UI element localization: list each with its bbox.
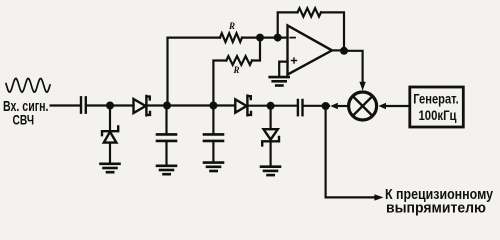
output node dot [340,47,348,55]
zener diode VD4 (cathode down) [262,129,279,145]
svg-text:100кГц: 100кГц [419,108,458,123]
resistor R2 [226,56,252,65]
capacitor C1 (series input) [81,97,86,112]
ground G2 [157,166,176,174]
op-amp plus sign [292,58,297,63]
wire: VD1 to ground [109,143,111,163]
generator box [410,87,464,127]
wire: C4 to node F [304,105,329,107]
wire: node D down capacitor branch [212,106,214,135]
node A (junction dot) [106,102,114,110]
node C (junction of R1 and R2) [256,34,264,42]
capacitor C3 (to ground) [204,134,223,141]
diode VD2 (series zener, pointing right) [134,96,151,115]
wire: plus input to ground [279,62,287,77]
node D (junction dot) [209,102,217,110]
label: Вх. сигн. СВЧ [3,99,49,128]
ground G4 [261,167,280,175]
ground G5 (op-amp) [270,77,289,85]
op-amp U1 [288,25,333,74]
wire: node A down to zener VD1 [109,106,111,131]
output arrow (pointing right) [374,194,383,200]
wire: output to mixer (down) [344,51,363,82]
capacitor C4 (series, before mixer) [298,100,303,115]
feedback resistor [298,8,322,16]
wire: VD2 to node B [147,104,235,106]
input sine-wave symbol [6,78,50,92]
label: Генерат. 100кГц [413,92,459,124]
svg-text:СВЧ: СВЧ [13,112,35,128]
wire: node B up and right to resistor R1 [168,38,221,106]
svg-text:R: R [233,65,240,75]
wire: generator to mixer [386,105,410,107]
node G (feedback tap junction) [274,34,282,42]
wire: VD4 to ground [270,141,272,166]
node F (junction dot) [322,102,330,110]
diode VD3 (series zener, pointing right) [235,96,251,116]
wire: R2 right end up to node C [252,38,260,61]
wire: node B down capacitor branch [165,106,167,135]
wire: VD3 to node E [248,105,297,107]
svg-text:Генерат.: Генерат. [413,92,459,107]
wire: C2 to ground [165,141,167,165]
ground G1 [101,164,120,172]
resistor R1 [220,33,242,42]
wire: node E down to zener VD4 [270,106,272,129]
wire: C1 to node A [88,104,134,106]
ground G3 [204,163,223,171]
label: К прецизионному выпрямителю [385,187,493,217]
arrow into mixer right (pointing left) [378,103,386,109]
wire: R1 to op-amp minus input [242,36,288,38]
wire: node D up to resistor R2 [213,61,226,106]
arrow from mixer into node F (pointing left) [337,105,349,107]
mixer U2 (circle with X) [349,92,377,120]
wire: input to C1 [51,104,80,106]
zener diode VD1 (cathode up) [102,126,118,142]
node B (junction dot) [163,102,171,110]
wire: node F down and right to output arrow [326,106,375,197]
wire: C3 to ground [212,141,214,162]
svg-text:выпрямителю: выпрямителю [386,201,486,217]
arrow into mixer top (pointing down) [359,82,365,91]
op-amp minus sign [290,37,295,39]
feedback loop wire [278,12,344,51]
svg-text:R: R [228,21,235,31]
node E (junction dot) [267,102,275,110]
wire: op-amp output [332,49,344,51]
capacitor C2 (to ground) [157,134,176,141]
